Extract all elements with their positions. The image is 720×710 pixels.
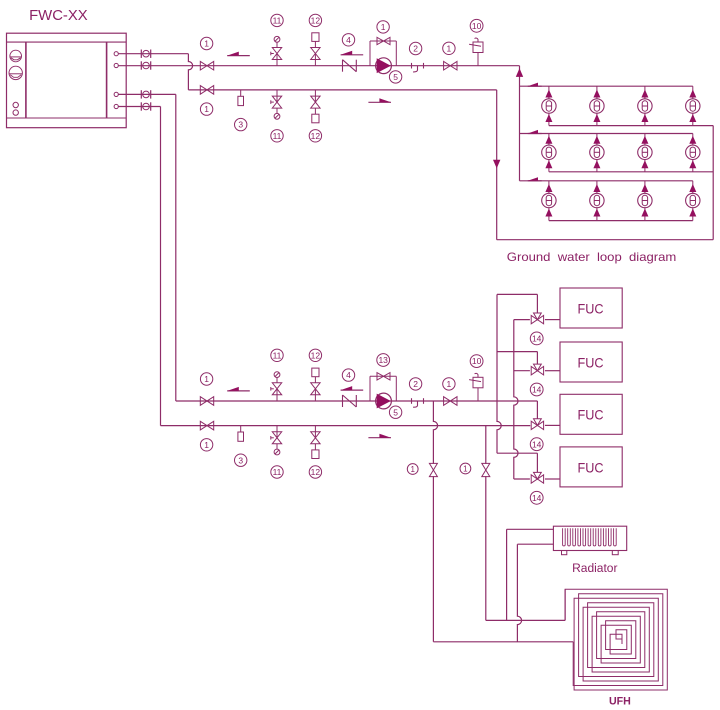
borehole heat exchanger r2c3 bbox=[638, 134, 652, 172]
three-way valve 14 for FUC2 bbox=[531, 364, 543, 375]
label circle 11 (middle lower) bbox=[271, 466, 283, 478]
label circle 12 (top lower) bbox=[309, 130, 321, 142]
balancing valve 11 above middle supply bbox=[271, 372, 282, 401]
unit port circle 3 bbox=[114, 92, 118, 96]
unit port circle 4 bbox=[114, 104, 118, 108]
svg-text:1: 1 bbox=[204, 39, 209, 49]
label circle 1 (top return valve) bbox=[200, 103, 212, 115]
three-way valve 14 for FUC3 bbox=[531, 419, 543, 430]
label circle 1 (middle return valve) bbox=[200, 439, 212, 451]
balancing valve 11 below middle return bbox=[271, 426, 282, 455]
wire ground-loop right riser bbox=[712, 126, 714, 240]
flow arrow left on middle supply bbox=[227, 387, 250, 391]
svg-text:2: 2 bbox=[413, 44, 418, 54]
label circle 4 (middle) bbox=[342, 369, 354, 381]
wire drop pipe 1 (supply to UFH/radiator) bbox=[433, 401, 573, 642]
flow arrow left above check valve (middle) bbox=[341, 386, 364, 390]
flow arrow up on left riser bbox=[516, 68, 523, 77]
union fitting 2 on top supply bbox=[412, 63, 424, 72]
svg-text:12: 12 bbox=[311, 467, 321, 477]
unit inner left column line bbox=[25, 42, 27, 118]
isolating valve 1 on drop pipe 1 bbox=[429, 463, 437, 476]
svg-text:11: 11 bbox=[273, 467, 282, 477]
label circle 10 (top) bbox=[470, 19, 483, 32]
label circle 14 (FUC2) bbox=[530, 383, 543, 396]
svg-text:1: 1 bbox=[410, 465, 415, 474]
label circle 3 (middle) bbox=[235, 454, 247, 466]
label circle 11 (top upper) bbox=[271, 14, 283, 26]
label circle 1 (drop 2) bbox=[460, 463, 471, 474]
unit inner top rail bbox=[7, 41, 127, 43]
gate valve 1 on top supply pipe bbox=[200, 61, 213, 70]
svg-text:1: 1 bbox=[204, 104, 209, 114]
check valve 4 on middle supply bbox=[343, 395, 357, 407]
wire FUC2 branch to box bbox=[514, 370, 560, 372]
svg-text:1: 1 bbox=[204, 440, 209, 450]
svg-text:1: 1 bbox=[204, 374, 209, 384]
flow arrow right on middle return bbox=[368, 434, 391, 438]
label FUC1 bbox=[578, 301, 604, 316]
wire drop pipe 2 (return) bbox=[486, 426, 565, 621]
automatic air vent 10 (top) bbox=[469, 38, 483, 66]
borehole heat exchanger r3c2 bbox=[590, 181, 604, 221]
label circle 11 (top lower) bbox=[271, 130, 283, 142]
label circle 1 (middle supply valve) bbox=[200, 373, 212, 385]
flow arrow left on top header row 3 bbox=[528, 177, 542, 181]
label circle 11 (middle upper) bbox=[271, 349, 283, 361]
gate valve 1 right of pump (top) bbox=[444, 61, 457, 70]
wire port3 drop pipe bbox=[118, 94, 176, 401]
label circle 1 (middle right valve) bbox=[443, 378, 455, 390]
flow arrow left on top supply bbox=[227, 52, 250, 56]
label circle 10 (middle) bbox=[470, 355, 483, 368]
motor valve 12 above top supply bbox=[311, 33, 320, 66]
UFH pipe A spiral bbox=[573, 594, 663, 686]
flow arrow left on top header row 1 bbox=[528, 83, 542, 87]
wire middle supply pipe bbox=[176, 400, 497, 402]
wire FUC supply riser bbox=[497, 294, 501, 453]
UFH pipe B spiral bbox=[565, 589, 667, 690]
motor valve 12 below middle return bbox=[311, 426, 320, 459]
label circle 12 (middle lower) bbox=[309, 466, 321, 478]
gate valve 1 on top return pipe bbox=[200, 86, 213, 95]
wire ground-loop top header row 2 bbox=[520, 133, 693, 135]
wire ground-loop bottom line bbox=[497, 239, 714, 241]
label circle 1 (drop 1) bbox=[407, 464, 418, 475]
svg-text:14: 14 bbox=[532, 333, 542, 343]
wire ground-loop top header row 3 bbox=[520, 180, 693, 182]
automatic air vent 10 (middle) bbox=[469, 373, 483, 401]
svg-text:UFH: UFH bbox=[609, 696, 631, 708]
svg-text:11: 11 bbox=[273, 131, 282, 141]
label circle 1 (top supply valve) bbox=[200, 37, 212, 49]
wire ground-loop bottom header row 2 bbox=[549, 171, 713, 173]
flexible connector on port 2 bbox=[141, 61, 150, 69]
svg-text:14: 14 bbox=[532, 493, 542, 503]
wire top return pipe bbox=[188, 89, 496, 91]
svg-text:13: 13 bbox=[378, 355, 388, 365]
flexible connector on port 4 bbox=[141, 102, 150, 110]
wire radiator return leg bbox=[517, 544, 553, 642]
wire middle return pipe bbox=[161, 425, 531, 427]
svg-text:1: 1 bbox=[381, 22, 386, 32]
wire port4 drop pipe bbox=[118, 107, 160, 426]
motor valve 12 below top return bbox=[311, 90, 320, 123]
wire FUC return riser bbox=[514, 320, 518, 479]
label circle 14 (FUC3) bbox=[530, 438, 543, 451]
svg-text:12: 12 bbox=[311, 131, 321, 141]
label FUC4 bbox=[578, 460, 604, 475]
pump bypass loop with valve 13 (middle) bbox=[370, 373, 396, 401]
svg-text:FUC: FUC bbox=[578, 408, 604, 423]
borehole heat exchanger r3c1 bbox=[542, 181, 556, 221]
label circle 14 (FUC1) bbox=[530, 332, 543, 345]
svg-text:1: 1 bbox=[447, 379, 452, 389]
flow arrow right on top return bbox=[368, 98, 391, 102]
FUC4 unit box bbox=[560, 447, 622, 487]
svg-text:FUC: FUC bbox=[578, 460, 604, 475]
svg-text:4: 4 bbox=[346, 35, 351, 45]
svg-text:11: 11 bbox=[273, 15, 282, 25]
FUC1 unit box bbox=[560, 288, 622, 328]
svg-text:FUC: FUC bbox=[578, 301, 604, 316]
temperature sensor 3 on top return bbox=[238, 90, 244, 106]
wire radiator supply leg bbox=[507, 529, 554, 620]
flow arrow left on top header row 2 bbox=[528, 130, 542, 134]
label circle 5 (middle) bbox=[389, 406, 401, 418]
borehole heat exchanger r1c2 bbox=[590, 86, 604, 125]
unit port circle 2 bbox=[114, 63, 118, 67]
unit port circle 1 bbox=[114, 52, 118, 56]
svg-text:Radiator: Radiator bbox=[572, 561, 617, 575]
svg-text:Ground water loop diagram: Ground water loop diagram bbox=[507, 250, 677, 264]
borehole heat exchanger r1c3 bbox=[638, 86, 652, 125]
pump bypass loop with valve (top) bbox=[370, 37, 396, 65]
wire ground-loop bottom header row 1 bbox=[549, 125, 713, 127]
wire ground-loop top header row 1 bbox=[520, 85, 693, 87]
temperature sensor 3 on middle return bbox=[238, 426, 244, 442]
unit FWC-XX cabinet outline bbox=[7, 33, 127, 128]
wire ground-loop return riser bbox=[496, 90, 498, 240]
three-way valve 14 for FUC1 bbox=[531, 313, 543, 324]
svg-text:1: 1 bbox=[447, 43, 452, 53]
FUC2 unit box bbox=[560, 342, 622, 382]
svg-text:2: 2 bbox=[413, 379, 418, 389]
wire FUC2 supply branch bbox=[497, 352, 537, 365]
wire FUC4 supply branch bbox=[497, 453, 537, 472]
svg-text:FWC-XX: FWC-XX bbox=[29, 8, 88, 24]
gate valve 1 on middle supply bbox=[200, 397, 213, 406]
svg-text:12: 12 bbox=[311, 350, 321, 360]
balancing valve 11 above top supply bbox=[271, 36, 282, 65]
radiator body bbox=[553, 526, 626, 555]
borehole heat exchanger r3c4 bbox=[686, 181, 700, 221]
svg-text:3: 3 bbox=[238, 120, 243, 130]
unit compressor gauge 2 bbox=[9, 66, 22, 79]
wire FUC1 branch to box bbox=[514, 319, 560, 321]
svg-text:3: 3 bbox=[238, 455, 243, 465]
unit inner right column line bbox=[106, 42, 108, 118]
svg-text:4: 4 bbox=[346, 370, 351, 380]
svg-text:1: 1 bbox=[463, 464, 468, 473]
flow arrow down on return riser bbox=[493, 160, 500, 169]
wire FUC4 branch to box bbox=[514, 478, 560, 480]
borehole heat exchanger r2c4 bbox=[686, 134, 700, 172]
pump 5 (middle circuit) bbox=[376, 393, 392, 409]
borehole heat exchanger r1c1 bbox=[542, 86, 556, 125]
svg-text:5: 5 bbox=[393, 72, 398, 82]
flow arrow left above check valve (top) bbox=[341, 51, 364, 55]
pump 5 (top circuit) bbox=[376, 58, 392, 74]
wire port2 supply pipe bbox=[118, 65, 519, 67]
wire ground-loop left riser (from supply pipe) bbox=[519, 66, 521, 181]
svg-text:FUC: FUC bbox=[578, 355, 604, 370]
svg-text:10: 10 bbox=[472, 21, 482, 31]
borehole heat exchanger r1c4 bbox=[686, 86, 700, 125]
wire ground-loop bottom header row 3 bbox=[549, 220, 693, 222]
FUC3 unit box bbox=[560, 394, 622, 434]
unit compressor gauge 1 bbox=[10, 50, 22, 62]
unit indicator circle 1 bbox=[13, 102, 18, 107]
gate valve 1 on middle return bbox=[200, 421, 213, 430]
label circle 3 (top) bbox=[235, 118, 247, 130]
flexible connector on port 1 bbox=[141, 50, 150, 58]
label FUC2 bbox=[578, 355, 604, 370]
three-way valve 14 for FUC4 bbox=[531, 472, 543, 483]
unit inner bottom rail bbox=[7, 117, 127, 119]
isolating valve 1 on drop pipe 2 bbox=[482, 463, 490, 476]
balancing valve 11 below top return bbox=[271, 90, 282, 119]
unit indicator circle 2 bbox=[13, 110, 18, 115]
label FUC3 bbox=[578, 408, 604, 423]
label circle 2 (top) bbox=[409, 42, 421, 54]
label circle 12 (top upper) bbox=[309, 14, 321, 26]
borehole heat exchanger r3c3 bbox=[638, 181, 652, 221]
label circle 1 (top bypass valve) bbox=[377, 21, 389, 33]
check valve 4 on top supply bbox=[343, 60, 357, 72]
wire port1 to down-corner bbox=[118, 54, 192, 90]
label circle 12 (middle upper) bbox=[309, 349, 321, 361]
gate valve 1 right of pump (middle) bbox=[444, 397, 457, 406]
label circle 1 (top right valve) bbox=[443, 42, 455, 54]
label circle 14 (FUC4) bbox=[530, 491, 543, 504]
svg-text:12: 12 bbox=[311, 15, 321, 25]
svg-text:14: 14 bbox=[532, 439, 542, 449]
union fitting 2 on middle supply bbox=[412, 398, 424, 407]
label circle 5 (top) bbox=[389, 71, 401, 83]
svg-text:14: 14 bbox=[532, 385, 542, 395]
wire FUC3 branch to box bbox=[545, 424, 560, 426]
label ground water loop diagram bbox=[507, 250, 677, 264]
label UFH bbox=[609, 696, 631, 708]
label circle 2 (middle) bbox=[409, 378, 421, 390]
svg-text:10: 10 bbox=[472, 356, 482, 366]
label circle 4 (top) bbox=[342, 34, 354, 46]
label circle 13 (middle bypass valve) bbox=[377, 354, 390, 367]
borehole heat exchanger r2c2 bbox=[590, 134, 604, 172]
flexible connector on port 3 bbox=[141, 90, 150, 98]
wire FUC3 supply branch bbox=[497, 401, 537, 419]
wire FUC1 supply branch bbox=[497, 294, 537, 313]
motor valve 12 above middle supply bbox=[311, 368, 320, 401]
label FWC-XX bbox=[29, 8, 88, 24]
label Radiator bbox=[572, 561, 617, 575]
borehole heat exchanger r2c1 bbox=[542, 134, 556, 172]
svg-text:11: 11 bbox=[273, 350, 282, 360]
svg-text:5: 5 bbox=[393, 407, 398, 417]
